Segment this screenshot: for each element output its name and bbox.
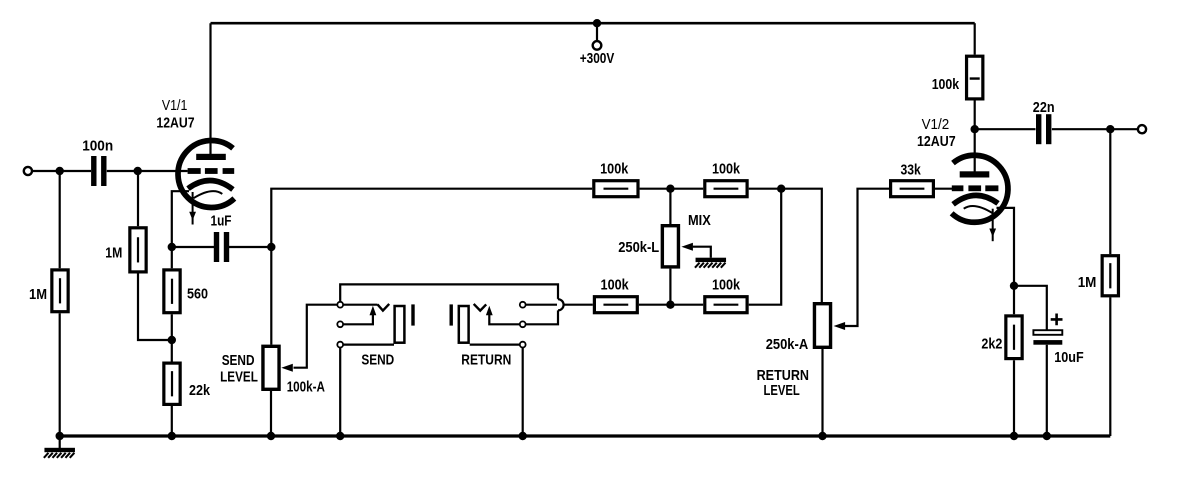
terminal output [1138,125,1146,133]
svg-text:250k-A: 250k-A [766,336,809,353]
node V1/2 cathode junction [1010,282,1018,290]
terminal return switch [520,321,526,327]
wire ground stub [59,436,61,448]
resistor 22k [164,363,211,404]
wire send bypass [340,284,558,301]
wiper 100k-A [281,305,337,372]
svg-text:250k-L: 250k-L [618,239,659,256]
wire return switch lead [486,306,520,325]
wire plate to 22n [975,128,1036,130]
wire row1 b [749,189,822,302]
send jack tip spring contact [378,304,390,311]
wire 2k2 bottom lead [1013,360,1015,436]
wire send pot bottom [270,391,272,436]
node gnd send pot [267,432,275,440]
wire plate resistor to rail [974,23,976,54]
node mix top junction [666,185,674,193]
wire return sleeve to ground [522,348,524,436]
ground (main) [44,448,75,458]
svg-text:V1/2: V1/2 [922,116,950,133]
terminal return sleeve [520,342,526,348]
svg-text:100k: 100k [601,277,630,294]
node gnd 22k [168,432,176,440]
label RETURN (level) [757,367,809,384]
wire return tip to 100k [564,304,593,306]
wire 22k bottom lead [171,406,173,436]
svg-text:100k-A: 100k-A [287,379,325,396]
potentiometer 100k-A SEND LEVEL [263,346,279,389]
terminal send switch [337,321,343,327]
wire send switch lead [343,306,376,325]
wire +300V stub [596,23,598,41]
resistor 560 [164,270,208,313]
terminal send tip [337,302,343,308]
svg-text:100k: 100k [600,161,629,178]
node +300V tap junction [593,19,601,27]
wire input to 100n [33,170,92,172]
wire output 1M bottom lead [1109,297,1111,436]
resistor 100k (return lower) [594,277,637,313]
resistor 100k (mix lower) [705,277,747,313]
label 12AU7 (V1/1) [156,114,194,131]
cathode arrow V1/2 [989,209,996,242]
node 560/22k junction [168,336,176,344]
svg-text:LEVEL: LEVEL [763,382,799,399]
wiper 250k-A [834,189,889,330]
label RETURN (jack) [461,352,511,369]
capacitor 1uF [211,213,232,263]
label 250k-A [766,336,809,353]
terminal return tip [520,302,526,308]
capacitor 10uF (electrolytic) [1033,314,1083,367]
svg-text:V1/1: V1/1 [162,97,188,114]
label MIX [688,212,711,229]
label 12AU7 (V1/2) [917,133,956,150]
wire cathode to 10uF [1014,286,1047,332]
node send junction [267,243,275,251]
wire return sleeve lead [470,344,520,346]
node input junction A [56,167,64,175]
svg-text:10uF: 10uF [1054,349,1083,366]
terminal input [24,167,32,175]
svg-text:+300V: +300V [580,50,615,67]
wire top +300V rail [211,22,975,25]
capacitor 100n [82,137,113,186]
node gnd send sleeve [336,432,344,440]
potentiometer 250k-L MIX [662,226,678,267]
node gnd return pot [818,432,826,440]
wire 10uF bottom lead [1046,345,1048,436]
wire V1/2 cathode lead [997,208,1015,314]
resistor 100k (mix upper) [705,161,747,197]
triode V1/2 (12AU7) [952,155,1008,222]
wire cathode node to 1uF [172,246,214,248]
wire 1M input top lead [59,171,61,268]
label LEVEL (send) [220,368,258,385]
potentiometer 250k-A RETURN LEVEL [814,304,830,348]
node gnd return sleeve [519,432,527,440]
wire send node to pot [270,247,272,345]
capacitor 22n [1033,99,1055,144]
svg-text:12AU7: 12AU7 [156,114,194,131]
wire row2 a [639,304,703,306]
wire V1/1 anode lead [209,23,211,154]
wire return tip lead [526,304,557,306]
node gnd 2k2 [1010,432,1018,440]
svg-text:SEND: SEND [222,352,255,369]
wire send node riser [271,189,592,247]
svg-text:SEND: SEND [361,352,394,369]
resistor 100k (send upper) [594,161,638,197]
svg-text:1M: 1M [105,245,122,262]
svg-text:1uF: 1uF [211,213,232,230]
wire 100n to grid [107,170,188,172]
node gnd input [56,432,64,440]
wire ground rail [60,434,1111,437]
terminal send sleeve [337,342,343,348]
cathode arrow V1/1 [189,192,196,225]
svg-text:22k: 22k [189,382,211,399]
wire output 1M top lead [1109,129,1111,254]
label V1/2 [922,116,950,133]
triode V1/1 (12AU7) [178,140,234,207]
label 100k-A [287,379,325,396]
return jack tip bar [450,304,453,325]
wire send sleeve to ground [339,348,341,436]
wire V1/1 cathode lead [172,191,189,247]
resistor 1M (input) [29,270,68,312]
wire V1/2 anode lead [974,101,976,172]
label SEND (jack) [361,352,394,369]
wire 1uF to send node [229,246,271,248]
svg-text:MIX: MIX [688,212,711,229]
wire return pot bottom [821,349,823,436]
send jack plug [395,306,405,343]
svg-text:22n: 22n [1033,99,1055,116]
label LEVEL (return) [763,382,799,399]
wire 22n to output [1052,128,1138,130]
wire cathode node to 560 [171,247,173,268]
label +300V [580,50,615,67]
wire 1M2 to cathode divider node [138,274,172,341]
node V1/2 plate junction [971,125,979,133]
svg-text:LEVEL: LEVEL [220,368,258,385]
wire 560 to 22k [171,314,173,361]
svg-text:33k: 33k [900,161,921,178]
label SEND (level) [222,352,255,369]
node row1 junction [777,185,785,193]
label V1/1 [162,97,188,114]
ground (mix wiper) [695,258,726,268]
node V1/1 cathode junction [168,243,176,251]
node output junction [1106,125,1114,133]
wire 1M2 top lead [137,171,139,226]
svg-text:1M: 1M [1078,274,1097,291]
return jack plug [459,306,469,343]
wire send sleeve lead [343,344,394,346]
wire crossover hop [526,299,564,325]
svg-text:100k: 100k [712,161,741,178]
wire row1 a [640,188,704,190]
svg-text:RETURN: RETURN [461,352,511,369]
node gnd 10uF [1043,432,1051,440]
wire send tip to contact [343,304,377,306]
resistor 1M (output) [1078,256,1119,296]
svg-text:12AU7: 12AU7 [917,133,956,150]
resistor 33k [891,161,934,196]
resistor 100k (plate) [932,56,983,99]
svg-text:1M: 1M [29,286,47,303]
svg-text:2k2: 2k2 [981,335,1002,352]
resistor 1M (grid leak) [105,228,146,272]
node grid junction B [134,167,142,175]
svg-text:560: 560 [187,286,208,303]
return jack tip spring contact [474,304,487,311]
svg-text:100k: 100k [932,76,960,93]
node mix bottom junction [666,301,674,309]
svg-text:100k: 100k [712,277,741,294]
resistor 2k2 [981,316,1022,359]
wire 1M input bottom lead [59,313,61,436]
wire row2 b [749,189,782,305]
svg-text:100n: 100n [82,137,113,154]
wire mix pot bottom lead [669,269,671,305]
wire 33k to grid [935,188,952,190]
terminal +300V [593,41,602,50]
send jack tip bar [411,304,414,325]
wire mix pot top lead [669,189,671,224]
wiper 250k-L [681,243,710,258]
label 250k-L [618,239,659,256]
